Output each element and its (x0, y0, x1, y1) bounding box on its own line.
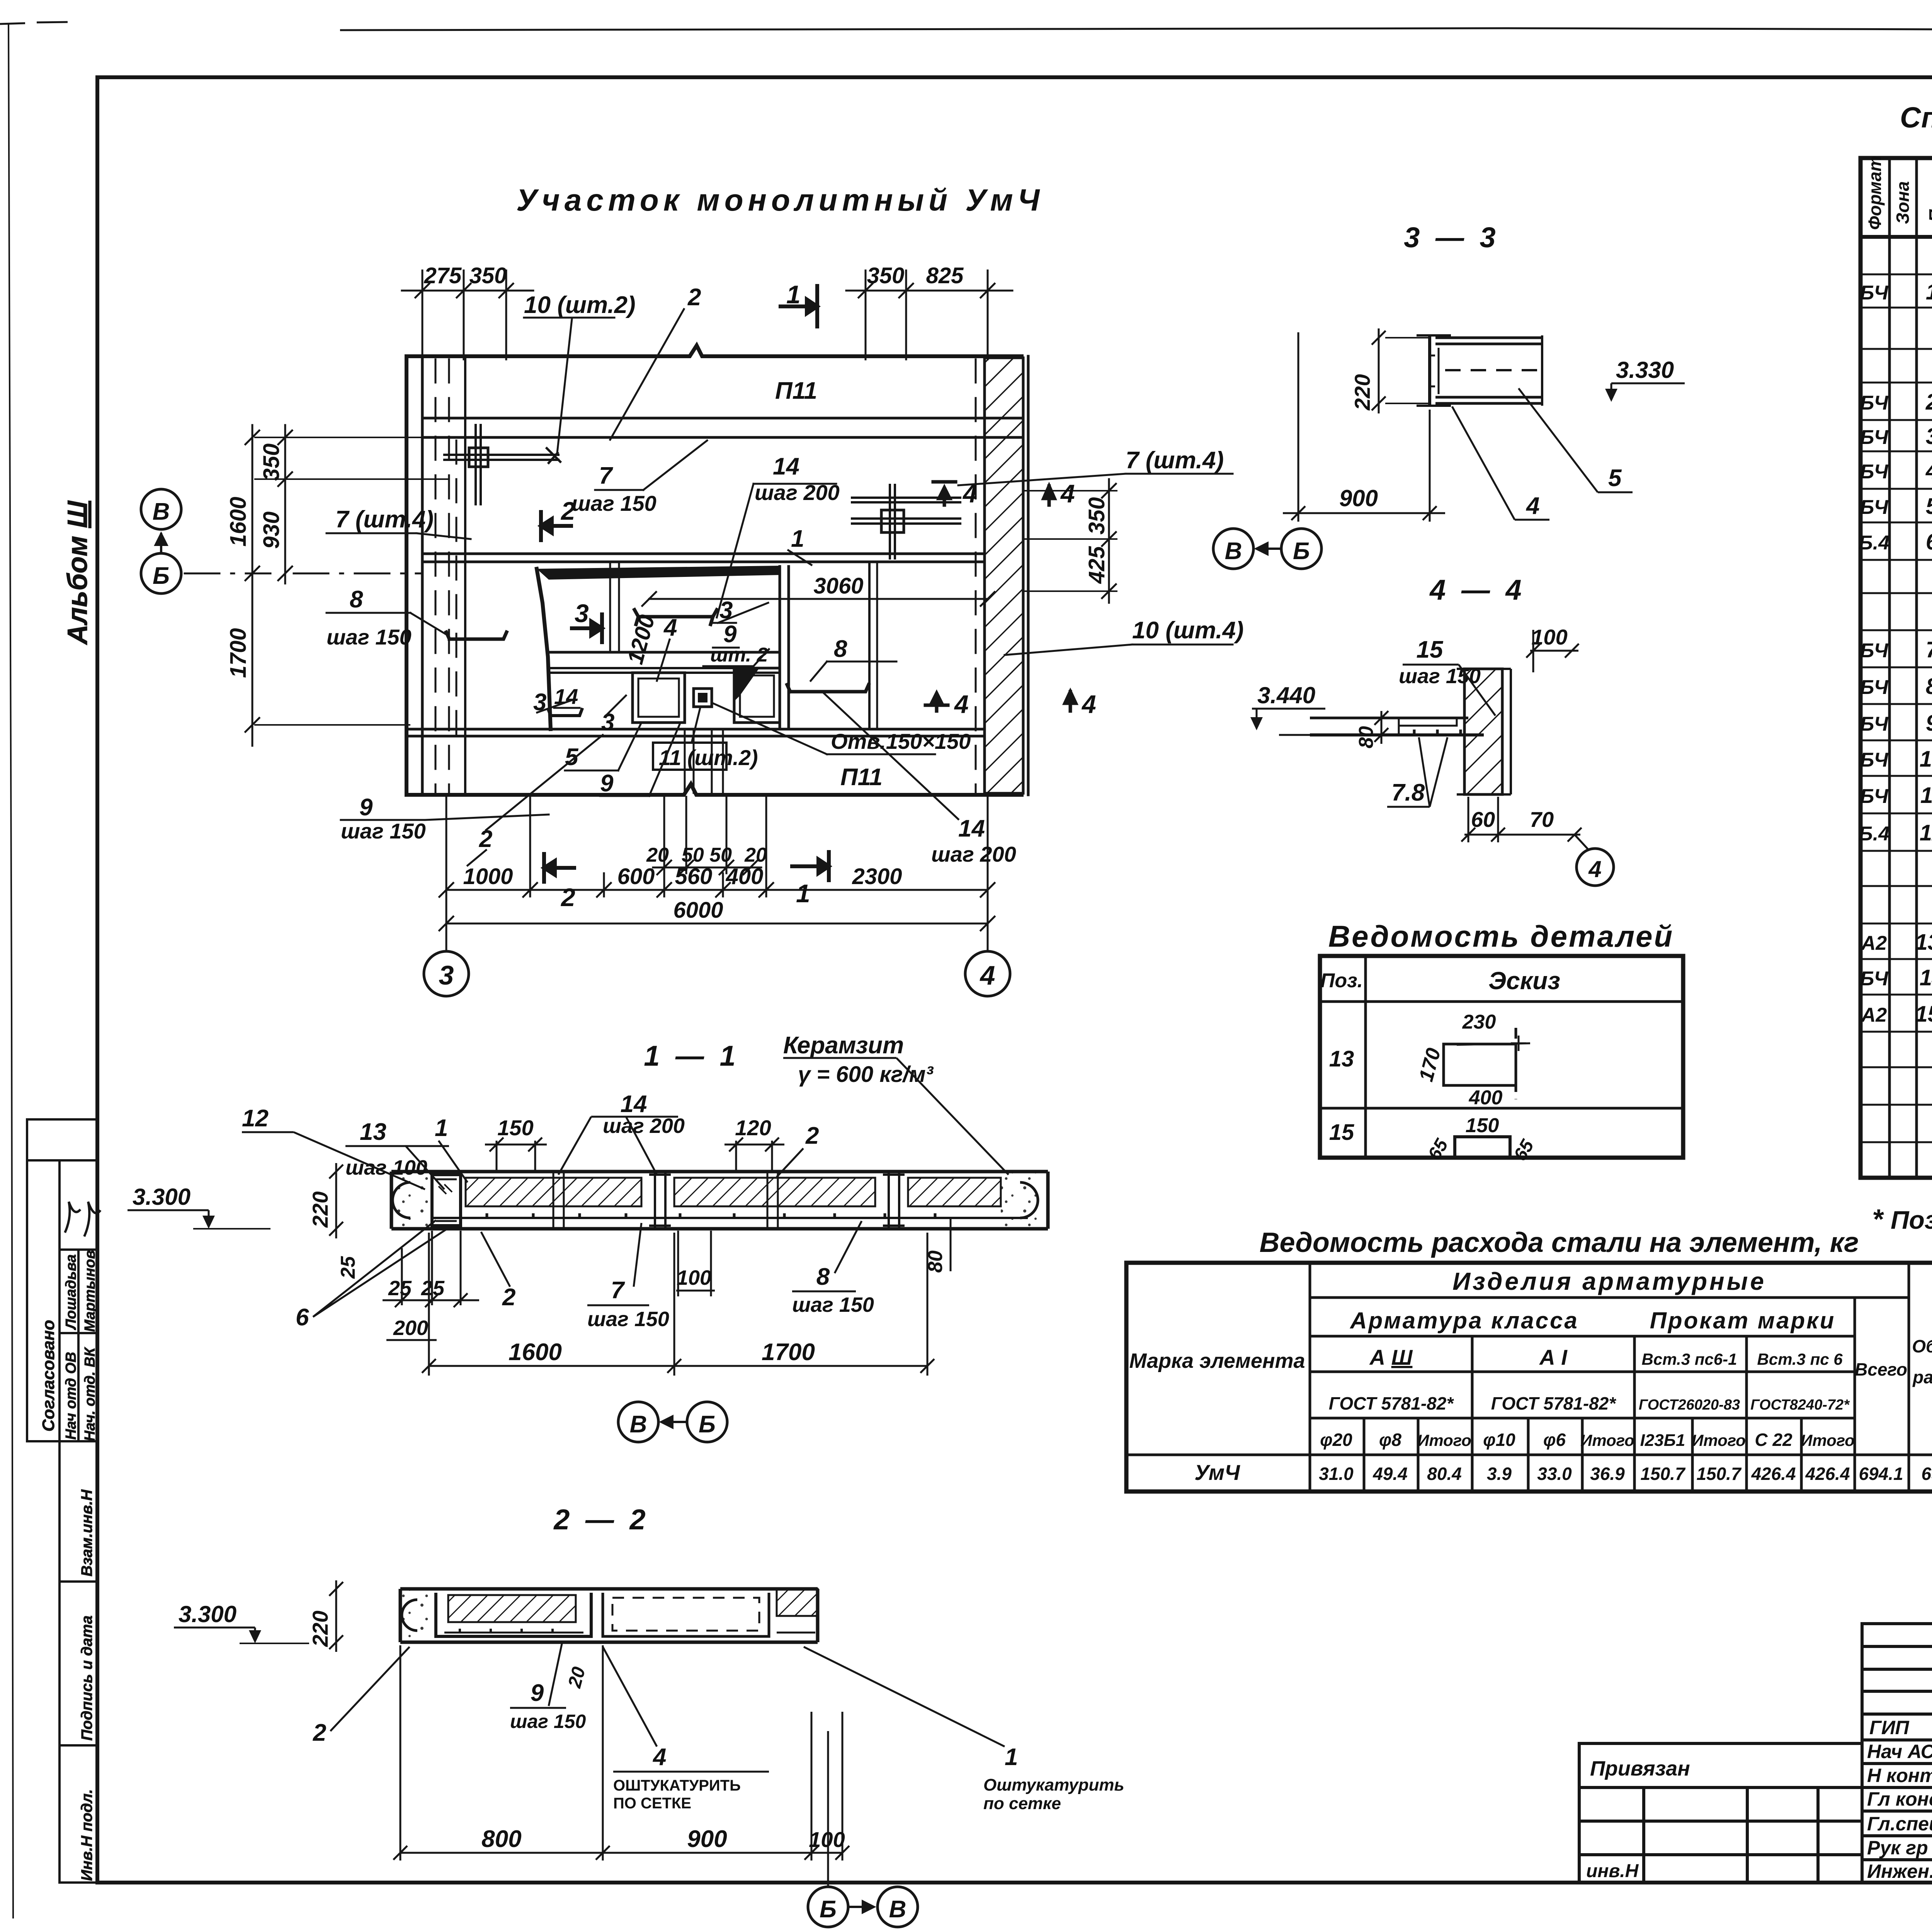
left dashed lines (435, 359, 437, 792)
opening right edges (779, 566, 781, 729)
svg-text:Нач. отд. ВК: Нач. отд. ВК (82, 1347, 98, 1441)
svg-text:Итого: Итого (1417, 1431, 1471, 1449)
svg-text:3.330: 3.330 (1616, 357, 1674, 383)
svg-text:426.4: 426.4 (1751, 1464, 1796, 1484)
svg-text:3.9: 3.9 (1487, 1464, 1512, 1484)
svg-text:2300: 2300 (852, 864, 902, 889)
spec table columns (1889, 158, 1932, 1178)
spec table row texts (1859, 243, 1932, 1173)
signatures scribble (65, 1202, 80, 1233)
svg-text:1700: 1700 (226, 628, 251, 678)
svg-text:Формат: Формат (1865, 156, 1885, 230)
section marker 4 arrows up (925, 482, 1076, 711)
spec table header labels (1865, 156, 1932, 230)
svg-text:36.9: 36.9 (1590, 1464, 1625, 1484)
spec table row lines (1861, 237, 1932, 1142)
svg-text:БЧ: БЧ (1860, 676, 1889, 699)
svg-text:7 (шт.4): 7 (шт.4) (1126, 447, 1224, 474)
svg-text:ГОСТ8240-72*: ГОСТ8240-72* (1750, 1397, 1850, 1413)
svg-text:Нач АСО: Нач АСО (1867, 1741, 1932, 1762)
svg-text:I23Б1: I23Б1 (1640, 1431, 1685, 1450)
window box A (633, 673, 685, 723)
wall hatch 4-4 (1464, 669, 1502, 794)
svg-text:Гл конс.: Гл конс. (1867, 1788, 1932, 1810)
svg-text:В: В (1225, 538, 1242, 565)
svg-text:1: 1 (435, 1115, 448, 1141)
svg-text:2: 2 (805, 1122, 819, 1149)
svg-text:Согласовано: Согласовано (39, 1320, 58, 1432)
svg-text:7: 7 (1926, 637, 1932, 662)
svg-text:φ8: φ8 (1379, 1430, 1401, 1450)
svg-text:ГОСТ 5781-82*: ГОСТ 5781-82* (1491, 1393, 1617, 1413)
svg-text:1000: 1000 (463, 864, 513, 889)
svg-text:80.4: 80.4 (1427, 1464, 1462, 1484)
svg-text:Взам.инв.Н: Взам.инв.Н (78, 1489, 95, 1577)
svg-text:230: 230 (1462, 1011, 1496, 1033)
svg-text:Привязан: Привязан (1590, 1757, 1690, 1780)
svg-text:900: 900 (1339, 485, 1378, 511)
svg-text:9: 9 (1926, 711, 1932, 736)
svg-text:Эскиз: Эскиз (1488, 967, 1560, 995)
rebar bar small 14 (548, 709, 582, 716)
svg-text:49.4: 49.4 (1372, 1464, 1408, 1484)
svg-text:9: 9 (359, 794, 373, 821)
svg-text:20: 20 (646, 844, 669, 866)
svg-text:Лошадьва: Лошадьва (63, 1254, 79, 1330)
svg-text:Н контр.: Н контр. (1867, 1765, 1932, 1786)
svg-text:ГОСТ26020-83: ГОСТ26020-83 (1639, 1397, 1740, 1413)
svg-text:25: 25 (337, 1256, 359, 1279)
svg-text:10 (шт.4): 10 (шт.4) (1132, 617, 1244, 644)
svg-text:5: 5 (1926, 494, 1932, 519)
svg-text:Рук гр: Рук гр (1867, 1837, 1928, 1859)
svg-text:Поз.: Поз. (1320, 969, 1363, 992)
svg-text:φ6: φ6 (1543, 1430, 1566, 1450)
svg-text:930: 930 (259, 512, 284, 549)
svg-text:Б: Б (153, 563, 170, 589)
svg-text:А Ш: А Ш (1369, 1345, 1413, 1369)
svg-text:200: 200 (393, 1316, 428, 1340)
svg-text:В: В (889, 1896, 906, 1923)
svg-text:150: 150 (1466, 1114, 1499, 1137)
dims 60 70 (1468, 797, 1469, 842)
svg-text:БЧ: БЧ (1860, 426, 1889, 449)
svg-text:П11: П11 (840, 764, 883, 791)
svg-text:4: 4 (663, 614, 677, 641)
svg-text:1 — 1: 1 — 1 (644, 1040, 739, 1072)
svg-text:Альбом Ш: Альбом Ш (62, 500, 93, 645)
scan left edge line (9, 23, 13, 1918)
svg-text:800: 800 (481, 1826, 521, 1852)
svg-text:694.1: 694.1 (1859, 1464, 1903, 1484)
svg-text:БЧ: БЧ (1860, 461, 1889, 483)
hatched slab segments (466, 1178, 641, 1206)
svg-text:Оштукатурить: Оштукатурить (983, 1776, 1124, 1794)
spec table frame (1861, 158, 1932, 1178)
section marker 1 lower (792, 852, 829, 880)
bottom dims 1600 1700 (429, 1365, 927, 1367)
svg-text:8: 8 (350, 586, 363, 613)
svg-text:3 — 3: 3 — 3 (1404, 221, 1499, 253)
dims 800 900 100 (400, 1645, 401, 1861)
svg-text:3: 3 (575, 599, 589, 628)
svg-text:С 22: С 22 (1755, 1430, 1793, 1450)
dim row 6000 (446, 923, 988, 925)
svg-text:7.8: 7.8 (1391, 779, 1425, 806)
middle beam double line (422, 553, 983, 555)
svg-text:60: 60 (1471, 807, 1495, 832)
svg-text:425: 425 (1084, 546, 1109, 584)
svg-text:Ведомость расхода стали на: Ведомость расхода стали на элемент, кг (1259, 1227, 1859, 1258)
dim row 1000/600/560/400/2300 (446, 889, 988, 891)
svg-text:15: 15 (1329, 1120, 1354, 1145)
rebar bar left (446, 632, 507, 639)
svg-text:14: 14 (1920, 965, 1932, 990)
svg-text:600: 600 (617, 864, 655, 889)
svg-text:шаг 150: шаг 150 (571, 491, 656, 515)
svg-text:25: 25 (388, 1277, 412, 1300)
svg-text:Итого: Итого (1692, 1431, 1746, 1449)
svg-text:4: 4 (954, 690, 969, 718)
svg-text:1: 1 (1926, 279, 1932, 304)
top dim line right (846, 290, 1012, 292)
svg-text:2: 2 (1925, 389, 1932, 415)
axis circle 3 (424, 951, 469, 996)
slab 4-4 (1310, 717, 1468, 719)
svg-text:Прокат марки: Прокат марки (1650, 1308, 1835, 1333)
svg-text:4: 4 (652, 1744, 666, 1770)
middle I beams (553, 1172, 905, 1229)
svg-text:8: 8 (816, 1264, 830, 1290)
svg-text:3.300: 3.300 (179, 1601, 236, 1627)
B-Б circles 1-1 (618, 1402, 658, 1442)
svg-text:1600: 1600 (509, 1339, 562, 1366)
svg-text:Б: Б (1293, 538, 1310, 565)
steel table frame (1126, 1263, 1932, 1492)
B-Б circles 3-3 (1213, 529, 1253, 569)
svg-text:Инв.Н подл.: Инв.Н подл. (78, 1789, 95, 1881)
svg-text:Подпись и дата: Подпись и дата (78, 1616, 95, 1741)
svg-text:3: 3 (439, 960, 454, 990)
svg-text:А2: А2 (1861, 1004, 1887, 1026)
circle 4 below (1577, 849, 1614, 886)
svg-text:Зона: Зона (1893, 181, 1913, 224)
right dim chain (1108, 479, 1110, 603)
svg-text:120: 120 (735, 1116, 771, 1140)
channel body 3-3 (1417, 335, 1542, 406)
svg-text:4: 4 (1925, 458, 1932, 483)
svg-text:100: 100 (809, 1827, 845, 1852)
svg-text:275: 275 (424, 263, 462, 288)
section marker 1 top (781, 286, 817, 327)
svg-text:Ведомость деталей: Ведомость деталей (1328, 919, 1674, 953)
left channel beam (432, 1175, 461, 1226)
svg-text:Мартынов: Мартынов (82, 1250, 98, 1332)
svg-text:4: 4 (1060, 479, 1075, 508)
left tray with keramzit (436, 1593, 591, 1636)
svg-text:11 (шт.2): 11 (шт.2) (659, 745, 758, 770)
svg-text:15*: 15* (1915, 1002, 1932, 1027)
left margin attribute boxes (27, 1119, 97, 1160)
top dim line left (402, 290, 533, 292)
svg-text:Поз.: Поз. (1925, 185, 1932, 222)
plan dim texts (226, 263, 1109, 923)
section marker 2 upper (541, 512, 571, 540)
svg-text:шаг 200: шаг 200 (603, 1114, 685, 1138)
svg-text:Вст.3 пс 6: Вст.3 пс 6 (1757, 1350, 1843, 1368)
small square with anchor (694, 689, 712, 707)
svg-text:шаг 200: шаг 200 (931, 842, 1016, 866)
svg-text:В: В (630, 1411, 647, 1438)
left attach table (1579, 1743, 1862, 1883)
sketch pos15 (1455, 1137, 1510, 1156)
svg-text:150.7: 150.7 (1640, 1464, 1686, 1484)
axis circle 4 (965, 951, 1010, 996)
svg-text:1: 1 (796, 879, 810, 908)
svg-text:100: 100 (1531, 625, 1567, 649)
svg-text:БЧ: БЧ (1860, 496, 1889, 519)
svg-text:инв.Н: инв.Н (1586, 1861, 1639, 1881)
rebar bar lower right (787, 685, 869, 692)
svg-text:4: 4 (1526, 493, 1539, 519)
svg-text:70: 70 (1530, 807, 1554, 832)
opening left edge (537, 569, 551, 729)
svg-text:1: 1 (1005, 1744, 1018, 1770)
svg-text:П11: П11 (775, 378, 817, 404)
svg-text:БЧ: БЧ (1860, 749, 1889, 771)
guide verticals under boxes (684, 730, 686, 793)
svg-text:Гл.спец.: Гл.спец. (1867, 1813, 1932, 1835)
left dim chain lines (252, 425, 253, 746)
svg-text:Участок монолитный УмЧ: Участок монолитный УмЧ (516, 183, 1044, 217)
svg-text:694.1: 694.1 (1921, 1464, 1932, 1484)
svg-text:6: 6 (296, 1304, 309, 1331)
lower beam double line (406, 728, 983, 731)
svg-text:7: 7 (611, 1277, 625, 1304)
opening mid step line (551, 651, 780, 654)
dim row 20 50 50 20 (653, 867, 761, 869)
svg-text:2: 2 (313, 1719, 326, 1746)
svg-text:1600: 1600 (226, 497, 251, 546)
right tray dashed (603, 1593, 769, 1636)
svg-text:15: 15 (1417, 636, 1444, 663)
sketch pos13 (1444, 1028, 1540, 1108)
svg-text:БЧ: БЧ (1860, 785, 1889, 808)
svg-text:900: 900 (687, 1826, 727, 1852)
svg-text:9: 9 (531, 1680, 544, 1706)
svg-text:4: 4 (1081, 690, 1096, 718)
svg-text:БЧ: БЧ (1860, 639, 1889, 662)
section marker 3 upper (572, 614, 602, 642)
svg-text:* Поз. 13, 15 - см. ведомость: * Поз. 13, 15 - см. ведомость деталей (1872, 1204, 1932, 1235)
svg-text:9: 9 (600, 770, 614, 797)
svg-text:20: 20 (744, 844, 767, 866)
svg-text:10 (шт.2): 10 (шт.2) (524, 292, 636, 318)
svg-text:БЧ: БЧ (1860, 392, 1889, 414)
slab left edge double line (405, 356, 408, 795)
svg-text:350: 350 (1084, 497, 1109, 535)
svg-text:по сетке: по сетке (983, 1794, 1061, 1813)
svg-text:14: 14 (621, 1091, 647, 1117)
svg-text:50 50: 50 50 (682, 844, 732, 866)
svg-text:φ10: φ10 (1483, 1430, 1515, 1450)
svg-text:6: 6 (1926, 529, 1932, 554)
section marker 2 lower (544, 854, 574, 882)
svg-text:8: 8 (834, 636, 847, 662)
svg-text:2: 2 (687, 284, 701, 311)
svg-text:3: 3 (1926, 424, 1932, 449)
svg-text:8: 8 (1926, 674, 1932, 699)
svg-text:4: 4 (980, 960, 995, 990)
svg-text:Марка элемента: Марка элемента (1129, 1349, 1305, 1372)
scan top-left dashes (0, 22, 68, 24)
svg-text:ГИП: ГИП (1869, 1717, 1910, 1738)
axis B dash line (185, 573, 421, 575)
Б-В circles 2-2 (808, 1887, 848, 1927)
svg-text:33.0: 33.0 (1537, 1464, 1572, 1484)
svg-text:ГОСТ 5781-82*: ГОСТ 5781-82* (1329, 1393, 1454, 1413)
wall hatched strip right (985, 358, 1023, 793)
svg-text:4 — 4: 4 — 4 (1429, 574, 1525, 606)
slab bottom edge (406, 784, 1022, 795)
svg-text:3.440: 3.440 (1257, 682, 1315, 708)
svg-text:350: 350 (259, 444, 284, 481)
svg-text:2: 2 (502, 1284, 515, 1311)
svg-text:3.300: 3.300 (133, 1184, 190, 1210)
svg-text:80: 80 (1355, 726, 1378, 748)
svg-text:1: 1 (791, 526, 804, 552)
svg-text:12: 12 (1920, 820, 1932, 845)
upper beam double line (422, 417, 1023, 420)
svg-text:4: 4 (1588, 856, 1601, 882)
svg-text:12: 12 (242, 1105, 269, 1132)
central signature table (1862, 1624, 1932, 1883)
svg-text:БЧ: БЧ (1860, 713, 1889, 735)
svg-text:шаг 150: шаг 150 (510, 1711, 586, 1732)
svg-text:5: 5 (1608, 465, 1622, 492)
svg-text:6000: 6000 (673, 898, 723, 923)
bottom extension lines (446, 797, 447, 951)
spec table header row (1861, 235, 1932, 239)
svg-text:А2: А2 (1861, 932, 1887, 954)
svg-text:Всего: Всего (1855, 1359, 1907, 1379)
mesh symbol top-left (444, 425, 560, 504)
svg-text:220: 220 (308, 1611, 332, 1647)
svg-text:Нач отд ОВ: Нач отд ОВ (63, 1352, 79, 1440)
svg-text:3060: 3060 (813, 573, 863, 599)
plan leader labels (327, 284, 1244, 866)
scan top edge line (340, 28, 1932, 31)
svg-text:Б.4: Б.4 (1859, 532, 1889, 554)
long left line + dim 900 (1298, 332, 1299, 522)
opening inner verticals (609, 564, 611, 652)
svg-text:расход: расход (1912, 1367, 1932, 1387)
svg-text:13: 13 (360, 1119, 386, 1145)
svg-text:БЧ: БЧ (1860, 968, 1889, 990)
svg-text:Арматура класса: Арматура класса (1349, 1308, 1579, 1333)
dim 3060 (649, 598, 988, 600)
svg-text:ОШТУКАТУРИТЬ: ОШТУКАТУРИТЬ (613, 1777, 741, 1794)
svg-text:350: 350 (469, 263, 507, 288)
svg-text:560: 560 (675, 864, 713, 889)
svg-text:2: 2 (560, 883, 575, 912)
rebar bar upper middle (634, 610, 717, 624)
slab top edge (406, 345, 1022, 356)
svg-text:Изделия арматурные: Изделия арматурные (1452, 1267, 1766, 1295)
svg-text:Керамзит: Керамзит (783, 1032, 904, 1059)
svg-text:400: 400 (1469, 1087, 1503, 1109)
svg-text:А I: А I (1539, 1345, 1568, 1369)
mesh symbol top-right (852, 485, 960, 558)
svg-text:Спецификация участка монолит: Спецификация участка монолитного УмЧ (1900, 101, 1932, 134)
svg-text:2 — 2: 2 — 2 (553, 1503, 649, 1536)
svg-text:13*: 13* (1915, 930, 1932, 955)
lower opening sill lines (551, 667, 780, 669)
svg-text:400: 400 (726, 864, 764, 889)
svg-text:350: 350 (867, 263, 905, 288)
plan leader lines (327, 309, 1233, 866)
svg-text:14: 14 (958, 815, 985, 842)
svg-text:ПО СЕТКЕ: ПО СЕТКЕ (613, 1795, 691, 1812)
svg-text:шаг 150: шаг 150 (587, 1308, 669, 1331)
svg-text:Итого: Итого (1801, 1431, 1855, 1449)
svg-text:φ20: φ20 (1320, 1430, 1352, 1450)
slab band 2-2 (400, 1589, 818, 1642)
details table frame (1320, 956, 1683, 1158)
svg-text:150.7: 150.7 (1696, 1464, 1742, 1484)
svg-text:426.4: 426.4 (1805, 1464, 1850, 1484)
left portal circle (393, 1182, 410, 1218)
svg-text:Б: Б (699, 1411, 716, 1438)
svg-text:150: 150 (497, 1116, 533, 1140)
top dim extension lines (422, 270, 423, 359)
svg-text:Б.4: Б.4 (1859, 823, 1889, 845)
svg-text:13: 13 (1329, 1046, 1354, 1071)
svg-text:1700: 1700 (762, 1339, 815, 1366)
svg-text:7: 7 (599, 463, 613, 489)
svg-text:7 (шт.4): 7 (шт.4) (335, 506, 434, 533)
svg-text:Б: Б (820, 1896, 837, 1923)
svg-text:11: 11 (1920, 783, 1932, 808)
right hatch corner (777, 1589, 818, 1616)
svg-text:220: 220 (1350, 374, 1374, 410)
svg-text:УмЧ: УмЧ (1194, 1460, 1240, 1485)
opening thick top edge (537, 566, 781, 580)
right end speckle (1001, 1172, 1048, 1229)
svg-text:Общий: Общий (1912, 1336, 1932, 1356)
svg-text:В: В (153, 498, 170, 525)
svg-text:31.0: 31.0 (1319, 1464, 1354, 1484)
slab band 1-1 (391, 1172, 1048, 1229)
svg-text:Вст.3 пс6-1: Вст.3 пс6-1 (1642, 1350, 1737, 1368)
svg-text:БЧ: БЧ (1860, 282, 1889, 304)
svg-text:Отв.150×150: Отв.150×150 (831, 729, 971, 753)
svg-text:10: 10 (1920, 747, 1932, 772)
svg-text:100: 100 (677, 1266, 711, 1289)
svg-text:Итого: Итого (1580, 1431, 1634, 1449)
axis circles B and Б left (141, 489, 181, 529)
svg-text:шаг 150: шаг 150 (341, 819, 426, 843)
svg-text:14: 14 (773, 453, 799, 480)
svg-text:Инжен.: Инжен. (1867, 1861, 1932, 1882)
svg-text:1: 1 (786, 280, 801, 309)
bottom rebar line with studs (433, 1217, 1028, 1219)
svg-text:220: 220 (308, 1191, 332, 1228)
svg-text:шаг 150: шаг 150 (792, 1293, 874, 1316)
svg-text:825: 825 (926, 263, 964, 288)
window box B dark corner (734, 668, 780, 723)
svg-text:шаг 150: шаг 150 (327, 625, 412, 649)
